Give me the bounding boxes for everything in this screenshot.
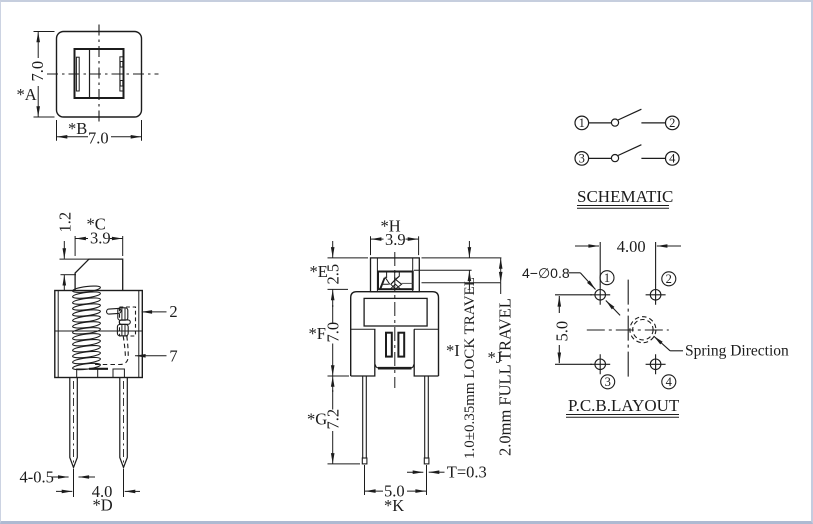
pcb: pad 2 circle [650, 290, 661, 301]
front view: plunger inner V marks [390, 284, 400, 289]
top view: inner button square [75, 49, 124, 98]
side view: latch crossbar [119, 320, 130, 324]
front view: body outline [351, 292, 439, 376]
svg-text:3: 3 [579, 152, 585, 166]
svg-text:1: 1 [579, 116, 585, 130]
front view: shoulder step right [414, 328, 439, 330]
dimension *H 3.9: dim line right [406, 238, 419, 240]
svg-text:3.9: 3.9 [385, 230, 406, 249]
schematic: contact pivot circle row2 [611, 155, 618, 162]
dimension *F 7.0: ext line body bottom [328, 375, 350, 377]
side view: right leg centerline [123, 381, 125, 465]
svg-text:2: 2 [169, 302, 177, 321]
front view: plunger inner vline a [386, 272, 388, 279]
dimension *B 7.0: dimension line right [111, 136, 141, 138]
schematic: switch arm row2 [618, 145, 641, 156]
front view: plunger inner center stem [394, 272, 396, 281]
front view: plunger inner box [378, 272, 413, 290]
svg-text:3: 3 [605, 375, 611, 389]
pcb: number circle 3 [601, 375, 615, 389]
svg-text:2.0mm FULL TRAVEL: 2.0mm FULL TRAVEL [496, 298, 515, 456]
svg-text:7.0: 7.0 [88, 129, 109, 148]
dimension 4.0: ext line left [73, 469, 75, 497]
svg-text:4.00: 4.00 [617, 237, 646, 256]
front view: right leg tip [424, 458, 429, 464]
pcb: pad 1 circle [595, 290, 606, 301]
dimension *B 7.0: extension line right [141, 120, 143, 141]
dimension *E 2.5: top arrow [332, 241, 334, 258]
front view: slot left [386, 333, 392, 357]
dimension *H 3.9: dim line left [371, 238, 384, 240]
label 7: leader line [135, 355, 167, 357]
side view: hidden wire curve a [123, 336, 125, 357]
dimension 4.00: ext line left [599, 242, 601, 285]
schematic: terminal circle 3 [575, 152, 589, 166]
top view: right notch [120, 57, 123, 91]
dimension *H 3.9: ext line right [418, 236, 420, 255]
dimension *A 7.0: extension line bottom [34, 116, 55, 118]
side view: left leg [70, 378, 78, 468]
side view: spring wire pin [106, 308, 121, 314]
pcb: spring direction outer dashed circle [630, 317, 656, 343]
top view: right notch tick upper [120, 62, 123, 68]
dimension full travel: up arrow [500, 258, 502, 270]
side view: latch lower inner lines [122, 325, 125, 336]
dimension *H 3.9: ext line left [370, 236, 372, 255]
svg-text:2.5: 2.5 [324, 264, 343, 285]
dimension 5.0 *K: right arrow [407, 490, 426, 492]
side view: latch upper inner lines [122, 308, 125, 320]
side view: left leg centerline [73, 381, 75, 465]
pcb: title underline 1 [566, 414, 679, 416]
pcb: pad 1 cross [590, 285, 610, 305]
front view: slot right [398, 333, 404, 357]
pcb: pad 4 cross [646, 354, 666, 374]
front view: plunger inner A shape [380, 277, 390, 289]
svg-text:4−∅0.8: 4−∅0.8 [522, 265, 570, 281]
schematic: wire 3 to contact [588, 157, 611, 159]
dimension 5.0 pcb: ext line bottom [555, 363, 592, 365]
pcb: number circle 1 [600, 271, 614, 285]
dimension lock travel: bottom arrow [468, 271, 470, 290]
side view: body inner wall left [57, 291, 59, 378]
dimension 4-0.5: leader left arrow [52, 476, 69, 478]
top view: inner vertical parting line [89, 49, 91, 98]
front view: plunger outer [371, 258, 420, 292]
svg-text:1.0±0.35mm LOCK TRAVEL: 1.0±0.35mm LOCK TRAVEL [462, 277, 478, 459]
pcb: number circle 2 [662, 272, 676, 286]
top view: outer body square [57, 32, 142, 118]
dimension *A 7.0: dimension line lower [37, 86, 39, 117]
front view: left leg tip [362, 458, 367, 464]
dimension *E 2.5 bottom arrow / *F top arrow [332, 290, 334, 307]
pcb: vertical centerline [627, 280, 629, 377]
schematic: title underline 2 [577, 207, 669, 209]
dimension *B 7.0: dimension line left [57, 136, 88, 138]
travel: ext line plunger top right [422, 257, 502, 259]
svg-text:*B: *B [68, 119, 87, 138]
front view: plunger inner diamond [391, 276, 402, 289]
schematic: switch arm row1 [618, 109, 641, 120]
svg-text:7.0: 7.0 [324, 322, 343, 343]
front view: left leg [363, 376, 367, 458]
side view: plunger with chamfer [75, 259, 123, 290]
dimension 4.0: left arrow [56, 490, 72, 492]
dimension 5.0 *K: left arrow [365, 490, 383, 492]
dimension *E 2.5: ext line body top left [328, 288, 349, 290]
schematic: terminal circle 2 [666, 116, 680, 130]
spring direction: leader arrow [654, 336, 671, 351]
dimension T=0.3: left arrow [407, 471, 423, 473]
front view: body bottom left block [351, 329, 375, 376]
svg-text:4: 4 [666, 375, 673, 389]
dimension T=0.3: right arrow [429, 471, 445, 473]
dimension *G 7.2: top arrow [332, 376, 334, 392]
front view: plunger inner fold line [402, 282, 413, 284]
dimension 4.0: ext line right [123, 469, 125, 497]
svg-text:T=0.3: T=0.3 [447, 463, 487, 482]
dimension 4.0: right arrow [125, 490, 140, 492]
svg-text:1.2: 1.2 [56, 212, 75, 233]
label 4-dia0.8: leader horizontal [569, 272, 581, 274]
dimension 5.0 pcb: top arrow [558, 296, 560, 313]
dimension full travel: down arrow [500, 270, 502, 282]
pcb: pad 3 cross [590, 354, 610, 374]
travel: ext line lock position [414, 269, 472, 271]
side view: hidden wire curve b [94, 336, 129, 365]
side view: coil spring [72, 285, 100, 371]
svg-text:7.0: 7.0 [28, 61, 47, 82]
side view: right leg [120, 378, 128, 468]
dimension 4.00: left arrow [575, 245, 599, 247]
dimension *A 7.0: extension line top [34, 31, 55, 33]
svg-text:7.2: 7.2 [324, 409, 343, 430]
schematic: contact pivot circle row1 [611, 119, 618, 126]
side view: latch upper piece [118, 308, 128, 320]
front view: shoulder step left [351, 328, 376, 330]
front view: plunger inner bent vline b [391, 272, 400, 285]
travel: ext line full position [422, 282, 501, 284]
svg-text:1: 1 [604, 271, 610, 285]
dimension *E 2.5: ext line plunger top left [328, 257, 369, 259]
label 4-dia0.8: leader arrow to pad [580, 273, 595, 290]
side view: right contact base [113, 369, 124, 378]
svg-text:*A: *A [17, 85, 37, 104]
dimension 4.00: right arrow [657, 245, 681, 247]
dimension *C 3.9: dim line left [75, 238, 88, 240]
dimension *G 7.2: dim line upper segment [332, 390, 334, 410]
dimension 1.2: dim line lower arrow [63, 275, 65, 291]
front view: center vertical axis [394, 252, 396, 388]
top view: vertical centerline [98, 25, 100, 125]
pcb: title underline 2 [566, 416, 679, 418]
schematic: wire to terminal 4 [641, 157, 666, 159]
schematic: title underline 1 [577, 205, 669, 207]
dimension 5.0 pcb: bottom arrow [558, 345, 560, 363]
dimension *F 7.0: dim line upper segment [332, 305, 334, 323]
front view: right leg [425, 376, 429, 458]
svg-text:P.C.B.LAYOUT: P.C.B.LAYOUT [568, 396, 680, 415]
dimension 5.0 *K: ext line left [364, 465, 366, 495]
dimension *B 7.0: extension line left [56, 120, 58, 141]
front view: inner top rectangle [364, 298, 427, 326]
dimension 4.00: ext line right [655, 242, 657, 285]
side view: cam groove dashed box [120, 307, 136, 336]
front view: center tongue bottom thick line [378, 367, 412, 370]
dimension full travel: tail below [500, 283, 502, 294]
pcb: horizontal centerline [587, 329, 669, 331]
side view: body mid horizontal line [55, 330, 143, 332]
side view: body inner wall right [138, 291, 140, 378]
schematic: terminal circle 1 [575, 116, 589, 130]
schematic: terminal circle 4 [666, 152, 680, 166]
pcb: number circle 4 [662, 375, 676, 389]
front view: center tongue bottom [375, 365, 413, 369]
svg-text:*I: *I [446, 341, 460, 360]
svg-text:5.0: 5.0 [553, 321, 572, 342]
dimension *C 3.9: ext line right [122, 236, 124, 256]
label 2: leader line [142, 311, 167, 313]
svg-text:*K: *K [384, 496, 404, 515]
pcb: spring direction inner dashed circle [633, 320, 653, 340]
svg-text:Spring Direction: Spring Direction [685, 343, 789, 360]
svg-text:SCHEMATIC: SCHEMATIC [577, 187, 673, 206]
dimension *C 3.9: ext line left [74, 236, 76, 256]
dimension *A 7.0: dimension line upper [37, 32, 39, 58]
dimension lock travel: top arrow [468, 241, 470, 258]
svg-text:*D: *D [93, 496, 113, 515]
svg-text:2: 2 [666, 272, 672, 286]
label 4-dia0.8: opposite arrow [606, 301, 620, 316]
pcb: pad 4 circle [650, 359, 661, 370]
front view: body bottom right block [414, 329, 438, 376]
dimension *G 7.2: dim line with bottom arrow [332, 431, 334, 464]
schematic: wire 1 to contact [588, 122, 611, 124]
side view: contact plate under spring [89, 368, 108, 370]
dimension 4-0.5: right arrow [79, 476, 96, 478]
front view: plunger wall right [412, 258, 414, 292]
top view: left notch [76, 57, 79, 91]
dimension 1.2: ext line at plunger top [60, 258, 91, 260]
svg-text:7: 7 [169, 346, 177, 365]
dimension 5.0 pcb: ext line top [555, 294, 592, 296]
svg-text:4-0.5: 4-0.5 [20, 468, 54, 487]
top view: right notch tick lower [120, 81, 123, 87]
dimension T=0.3: right leg ext below [426, 465, 428, 495]
side view: body outline [55, 291, 143, 378]
dimension *F 7.0: dim line with bottom arrow [332, 344, 334, 376]
schematic: wire to terminal 2 [641, 122, 666, 124]
svg-text:3.9: 3.9 [90, 229, 111, 248]
svg-text:2: 2 [669, 116, 675, 130]
pcb: pad 3 circle [595, 359, 606, 370]
dimension 1.2: ext line at chamfer bottom [61, 274, 77, 276]
dimension 1.2: dim line upper arrow [63, 241, 65, 259]
side view: left contact base [77, 369, 98, 378]
pcb: pad 2 cross [646, 285, 666, 305]
dimension *G 7.2: ext line leg bottom [328, 463, 361, 465]
front view: plunger wall left [376, 258, 378, 292]
spring direction: leader tail [670, 350, 683, 352]
side view: latch lower piece [117, 324, 128, 335]
svg-text:4: 4 [669, 152, 676, 166]
dimension *C 3.9: dim line right [110, 238, 123, 240]
top view: horizontal centerline [47, 73, 159, 75]
